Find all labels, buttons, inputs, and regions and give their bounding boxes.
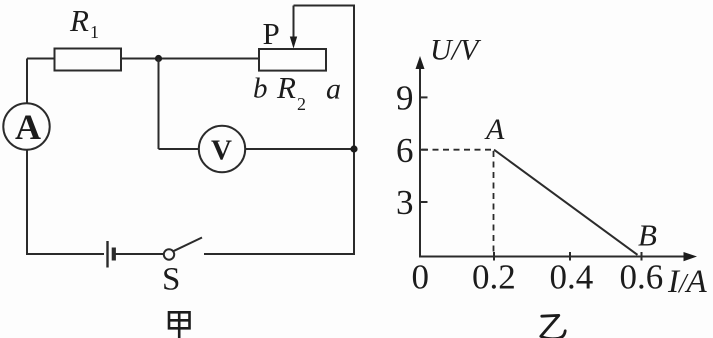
svg-text:A: A (484, 113, 505, 146)
x-axis arrowhead (684, 252, 698, 261)
slider arrowhead (290, 37, 297, 49)
wire voltmeter to right rail (245, 148, 354, 150)
wire R1 to rheostat (121, 58, 259, 60)
node junction right (350, 145, 357, 152)
wire top-left horizontal (27, 58, 55, 60)
battery long plate (106, 241, 108, 268)
label yi (乙) (541, 315, 565, 338)
battery short plate (112, 248, 116, 261)
tick y 3 (420, 201, 428, 203)
x-axis I/A (419, 256, 690, 258)
wire rheostat top (294, 5, 356, 7)
switch S pivot (164, 249, 174, 259)
ammeter A (3, 103, 49, 149)
svg-text:0: 0 (412, 258, 430, 297)
tick x 0.4 (569, 252, 571, 261)
line A-B (494, 150, 638, 255)
switch lever (173, 238, 202, 252)
label R2 (276, 70, 306, 114)
wire battery to switch (115, 253, 164, 255)
svg-text:0.4: 0.4 (550, 258, 594, 297)
svg-text:0.6: 0.6 (620, 258, 664, 297)
wire bottom left (26, 253, 104, 255)
tick y 6 (420, 149, 428, 151)
svg-text:B: B (638, 218, 657, 253)
svg-text:V: V (211, 135, 232, 167)
svg-text:a: a (326, 73, 341, 106)
tick x 0.6 (641, 252, 643, 261)
wire left rail upper (26, 59, 28, 104)
tick x 0.2 (493, 252, 495, 261)
wire slider P stem (293, 6, 295, 39)
svg-text:P: P (263, 16, 280, 51)
label R1 (69, 3, 99, 42)
node junction top (155, 55, 162, 62)
svg-text:A: A (15, 107, 41, 147)
dashed line A to axis (493, 151, 495, 256)
svg-text:S: S (162, 262, 180, 298)
svg-text:3: 3 (396, 183, 414, 222)
svg-text:1: 1 (90, 22, 99, 42)
svg-text:b: b (253, 73, 268, 105)
svg-text:6: 6 (396, 131, 414, 170)
svg-text:2: 2 (297, 94, 306, 114)
y-axis U/V (419, 62, 421, 257)
svg-text:U/V: U/V (430, 34, 482, 67)
wire left rail lower (26, 150, 28, 255)
svg-text:9: 9 (396, 79, 414, 118)
tick y 9 (420, 96, 428, 98)
wire right rail (353, 6, 355, 255)
wire to voltmeter left (159, 148, 200, 150)
svg-text:0.2: 0.2 (472, 258, 516, 297)
wire junction down to voltmeter (158, 59, 160, 150)
voltmeter V (199, 126, 245, 172)
rheostat R2 (259, 49, 326, 71)
svg-text:R: R (69, 3, 89, 38)
resistor R1 (55, 49, 122, 71)
dashed line 6 to A (422, 149, 494, 151)
svg-text:R: R (276, 70, 296, 105)
wire switch to right rail (204, 253, 355, 255)
label jia (甲) (169, 312, 190, 338)
y-axis arrowhead (416, 56, 425, 69)
svg-text:I/A: I/A (667, 264, 708, 300)
